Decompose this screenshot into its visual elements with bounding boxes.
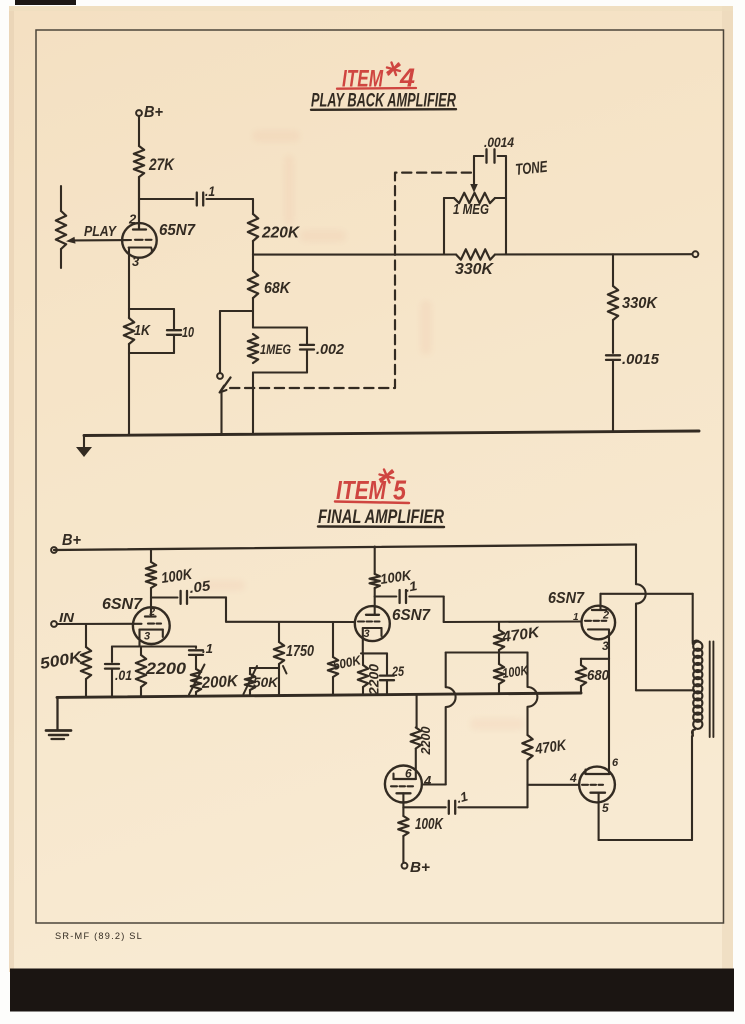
svg-text:B+: B+ <box>410 859 430 876</box>
svg-text:1: 1 <box>573 612 579 623</box>
svg-text:200K: 200K <box>200 673 239 692</box>
pin 6 (V5) <box>612 757 619 769</box>
terminal IN <box>51 610 75 627</box>
top-left black mark <box>15 0 76 5</box>
label 200K <box>200 673 239 692</box>
wire tone cap right to 1MEG <box>505 156 507 198</box>
wire 500K stage2 to bus <box>332 677 334 695</box>
wire .05 to stage2 grid <box>190 597 355 622</box>
output line left <box>253 253 456 255</box>
label 1MEG (item4 grid) <box>260 341 291 357</box>
svg-text:1 MEG: 1 MEG <box>453 201 489 218</box>
wire .1 to V3 grid <box>409 597 581 623</box>
svg-text:100K: 100K <box>415 816 444 833</box>
pin 2 (item4 tube) <box>128 212 137 227</box>
label 100K (divider) <box>501 662 530 681</box>
svg-text:2: 2 <box>149 607 156 618</box>
footer code SR-MF (89.2) SL <box>55 931 143 941</box>
label 100K (V4 plate) <box>415 816 444 833</box>
label .0015 <box>622 351 660 368</box>
pot PLAY <box>56 186 66 268</box>
svg-text:3: 3 <box>364 628 370 640</box>
bottom black bar <box>10 969 734 1012</box>
label 470K (lower) <box>533 737 568 758</box>
B+ rail <box>54 545 636 551</box>
triode 65N7 (item4) <box>74 177 157 258</box>
wire plate stage2 to .1 <box>375 595 397 597</box>
resistor 100K (stage1 plate) <box>146 562 156 588</box>
resistor 220K <box>248 214 258 241</box>
svg-text:68K: 68K <box>264 280 291 297</box>
svg-text:.05: .05 <box>188 577 211 596</box>
capacitor 10 <box>167 309 181 353</box>
svg-text:4: 4 <box>569 771 577 785</box>
label TONE <box>515 159 550 179</box>
svg-text:3: 3 <box>144 631 150 643</box>
ground symbol (item5) <box>46 697 71 739</box>
pot 50K <box>245 674 255 696</box>
transformer primary coil <box>692 641 702 736</box>
svg-text:6SN7: 6SN7 <box>548 590 585 607</box>
svg-text:PLAY: PLAY <box>84 223 118 240</box>
pot 200K <box>191 669 201 696</box>
wire 100K to plate node stage1 <box>150 588 152 617</box>
wire right leg with hop <box>528 653 538 736</box>
resistor 330K (horizontal) <box>456 249 495 259</box>
resistor 1K <box>124 318 134 344</box>
label 2200 (V4, vertical) <box>418 726 433 756</box>
cathode combo top stage2 <box>361 652 387 654</box>
label 500K (stage2 grid) <box>332 652 364 673</box>
wire 1MEG right leg <box>505 198 507 255</box>
title ITEM #4 (red) <box>337 63 416 93</box>
capacitor .05 <box>181 591 187 604</box>
triode 6SN7 V5 <box>579 767 615 840</box>
label 50K <box>253 674 279 690</box>
svg-text:B+: B+ <box>144 104 163 121</box>
resistor 470K (to V3 grid) <box>494 622 504 653</box>
label .1 (item4) <box>205 183 215 199</box>
wire B+ to 27K <box>138 116 140 146</box>
ground bus (item5) <box>57 693 581 697</box>
label 68K <box>264 280 291 297</box>
resistor 27K <box>134 146 144 177</box>
svg-text:IN: IN <box>59 610 75 625</box>
wire tone cap top <box>474 155 506 157</box>
svg-text:680: 680 <box>587 667 610 684</box>
wire stage2 grid to 500K <box>332 622 334 657</box>
wire 1750 to bus <box>278 664 280 696</box>
resistor 1750 <box>274 622 284 664</box>
svg-text:FINAL AMPLIFIER: FINAL AMPLIFIER <box>318 507 444 528</box>
svg-text:3: 3 <box>132 254 140 269</box>
dashed feedback wire <box>227 173 471 388</box>
svg-text:220K: 220K <box>261 225 300 242</box>
resistor 2200 (V4 bias) <box>411 695 421 749</box>
svg-text:330K: 330K <box>455 261 494 278</box>
svg-text:27K: 27K <box>148 156 175 174</box>
label .1 (stage2 coupling) <box>404 578 418 595</box>
label 500K (input) <box>39 649 85 673</box>
label 680 <box>587 667 610 684</box>
capacitor .1 (to 200K) <box>189 647 203 670</box>
resistor 100K (V4 plate) <box>398 807 408 863</box>
svg-text:330K: 330K <box>622 295 658 312</box>
title PLAY BACK AMPLIFIER <box>311 91 456 112</box>
arrow 50K <box>244 666 258 694</box>
svg-text:4: 4 <box>423 773 432 788</box>
wire IN to grid <box>57 623 142 625</box>
svg-text:.002: .002 <box>316 342 344 358</box>
pin 2 (stage1) <box>149 607 156 618</box>
tick mark near 50K <box>283 666 287 674</box>
svg-text:6SN7: 6SN7 <box>392 607 431 624</box>
label 65N7 (item4) <box>159 222 196 239</box>
svg-text:.1: .1 <box>202 641 213 656</box>
label 100K (stage2 plate) <box>379 567 413 587</box>
svg-text:2: 2 <box>602 610 609 622</box>
combo top wire <box>253 326 307 328</box>
wire plate node to .05 <box>151 596 178 598</box>
wire 100K stage2 to plate <box>374 588 376 615</box>
svg-text:6: 6 <box>612 757 619 769</box>
wire V3 cathode to 680 <box>581 629 609 658</box>
svg-text:5: 5 <box>602 801 609 815</box>
tone wiper arrow <box>470 156 478 193</box>
pin 5 (V5) <box>602 801 609 815</box>
capacitor .01 <box>105 647 119 698</box>
wire 470K lower to junction <box>526 760 528 807</box>
bypass cap branch bottom <box>129 352 174 354</box>
capacitor .1 (stage2 coupling) <box>400 590 406 603</box>
svg-text:50K: 50K <box>253 674 279 690</box>
terminal B+ (bottom) <box>402 859 431 876</box>
triode 6SN7 V3 <box>582 594 616 640</box>
svg-text:25: 25 <box>391 663 404 679</box>
label 1K <box>134 322 151 339</box>
resistor 100K (stage2 plate) <box>370 574 380 588</box>
label .1 (to 200K) <box>202 641 213 656</box>
transformer core <box>710 642 714 738</box>
label .1 (phase splitter) <box>455 789 470 806</box>
wire 220K to output line <box>252 241 254 255</box>
resistor 500K (stage2 grid) <box>328 657 338 677</box>
resistor 68K <box>248 255 258 328</box>
label 470K (upper) <box>500 624 541 646</box>
triode 6SN7 stage2 <box>355 606 390 653</box>
resistor 330K (right branch) <box>608 254 618 353</box>
label 6SN7 (stage1) <box>102 596 143 613</box>
wire rail to 100K stage1 <box>150 549 152 562</box>
divider top wire <box>446 651 528 653</box>
triode 6SN7 stage1 <box>133 607 170 646</box>
pot 1 MEG (tone) <box>444 193 506 203</box>
ground bus (item 4) <box>84 431 699 436</box>
combo bottom wire <box>253 371 307 373</box>
svg-text:2200: 2200 <box>418 726 433 756</box>
wire 500K to bus <box>85 679 87 697</box>
label 25 <box>391 663 404 679</box>
resistor 100K (divider) <box>494 653 504 695</box>
capacitor .1 (item4 coupling) <box>197 193 203 206</box>
wiper arrow PLAY <box>66 237 76 244</box>
wire plate node to coupling cap <box>139 198 194 200</box>
svg-text:10: 10 <box>182 325 194 341</box>
pin 3 (stage1) <box>144 631 150 643</box>
resistor 2200 (stage2 cathode) <box>358 653 368 695</box>
cathode wire (item4) <box>128 248 130 436</box>
label PLAY <box>84 223 118 240</box>
label 2200 (stage1) <box>145 660 187 678</box>
pin 3 (item4 tube) <box>132 254 140 269</box>
wire V5 plate to transformer bottom <box>599 736 692 840</box>
resistor 500K (input) <box>81 647 91 679</box>
title ITEM #5 (red) <box>335 470 409 506</box>
pin 1 tick (V3) <box>573 612 579 623</box>
switch branch wire <box>220 311 253 373</box>
svg-text:.0015: .0015 <box>622 351 660 368</box>
svg-text:1MEG: 1MEG <box>260 341 291 357</box>
label .002 <box>316 342 344 358</box>
arrow 200K <box>189 665 205 695</box>
svg-text:6SN7: 6SN7 <box>102 596 143 613</box>
pot 50K bracket <box>250 668 279 674</box>
wire rail to 100K stage2 <box>374 547 376 575</box>
label .01 <box>115 667 132 683</box>
resistor 470K (lower) <box>522 735 532 760</box>
svg-text:B+: B+ <box>62 532 81 549</box>
title FINAL AMPLIFIER <box>318 507 444 528</box>
label 6SN7 (V3) <box>548 590 585 607</box>
triode 6SN7 V4 (inverted) <box>385 749 422 808</box>
label 2200 (stage2, vertical) <box>366 664 382 696</box>
wire switch to ground bus <box>220 392 222 435</box>
label .05 <box>188 577 211 596</box>
capacitor 25 <box>380 653 394 695</box>
svg-text:5: 5 <box>393 475 406 506</box>
label 1 MEG <box>453 201 489 218</box>
switch blade <box>220 378 231 393</box>
capacitor .0014 <box>487 149 495 162</box>
label 10 <box>182 325 194 341</box>
switch contact <box>217 373 223 379</box>
wire junction to V5 grid <box>528 784 579 786</box>
wire V4 plate to .1 <box>403 806 445 808</box>
bypass cap branch top <box>129 308 174 310</box>
label 100K (stage1 plate) <box>160 566 194 587</box>
svg-text:6: 6 <box>405 767 412 781</box>
wire left leg with hop to V4 grid <box>422 653 456 785</box>
pin 4 (V5) <box>569 771 577 785</box>
pin 3 (V3) <box>602 639 609 653</box>
svg-text:1750: 1750 <box>286 643 314 660</box>
label 6SN7 (stage2) <box>392 607 431 624</box>
resistor 2200 (stage1 cathode) <box>136 647 146 697</box>
label 330K (horizontal) <box>455 261 494 278</box>
terminal B+ (item 4) <box>136 104 163 121</box>
svg-text:SR-MF (89.2) SL: SR-MF (89.2) SL <box>55 931 143 941</box>
resistor 1MEG (item4 grid) <box>248 334 258 363</box>
label 27K <box>148 156 175 174</box>
output line right <box>495 253 693 255</box>
pin 3 (stage2) <box>364 628 370 640</box>
cathode node wire stage1 <box>112 645 196 647</box>
terminal B+ (item5) <box>51 532 81 553</box>
label 330K (right branch) <box>622 295 658 312</box>
svg-text:1K: 1K <box>134 322 151 339</box>
output terminal <box>693 251 699 257</box>
wire B+ to center tap with hop <box>636 545 694 691</box>
wire 1MEG left leg <box>443 198 445 255</box>
resistor 680 <box>576 659 586 693</box>
svg-text:65N7: 65N7 <box>159 222 196 239</box>
label 1750 <box>286 643 314 660</box>
capacitor .0015 <box>606 355 620 431</box>
pin 2 (V3) <box>602 610 609 622</box>
wire grid junction to 500K <box>85 624 87 647</box>
wire 27K to plate node <box>138 177 140 230</box>
pin 6 (V4) <box>405 767 412 781</box>
label .0014 <box>484 134 514 150</box>
label 220K <box>261 225 300 242</box>
svg-text:.1: .1 <box>404 578 418 595</box>
svg-text:.0014: .0014 <box>484 134 514 150</box>
pin 4 (V4) <box>423 773 432 788</box>
capacitor .002 <box>300 328 314 373</box>
wire 1MEG to ground bus <box>252 373 254 435</box>
wire V3 plate to transformer <box>601 594 693 641</box>
svg-text:2: 2 <box>128 212 137 227</box>
ground symbol (item 4) <box>76 436 92 458</box>
svg-text:.1: .1 <box>205 183 215 199</box>
shared cathode wire to V5 <box>608 659 610 774</box>
svg-text:2200: 2200 <box>145 660 187 678</box>
svg-text:.01: .01 <box>115 667 132 683</box>
wire cap to 220K <box>207 199 254 214</box>
wire .1 to V5 grid node <box>458 806 527 808</box>
capacitor .1 (phase splitter) <box>449 801 455 814</box>
svg-text:TONE: TONE <box>515 159 550 179</box>
